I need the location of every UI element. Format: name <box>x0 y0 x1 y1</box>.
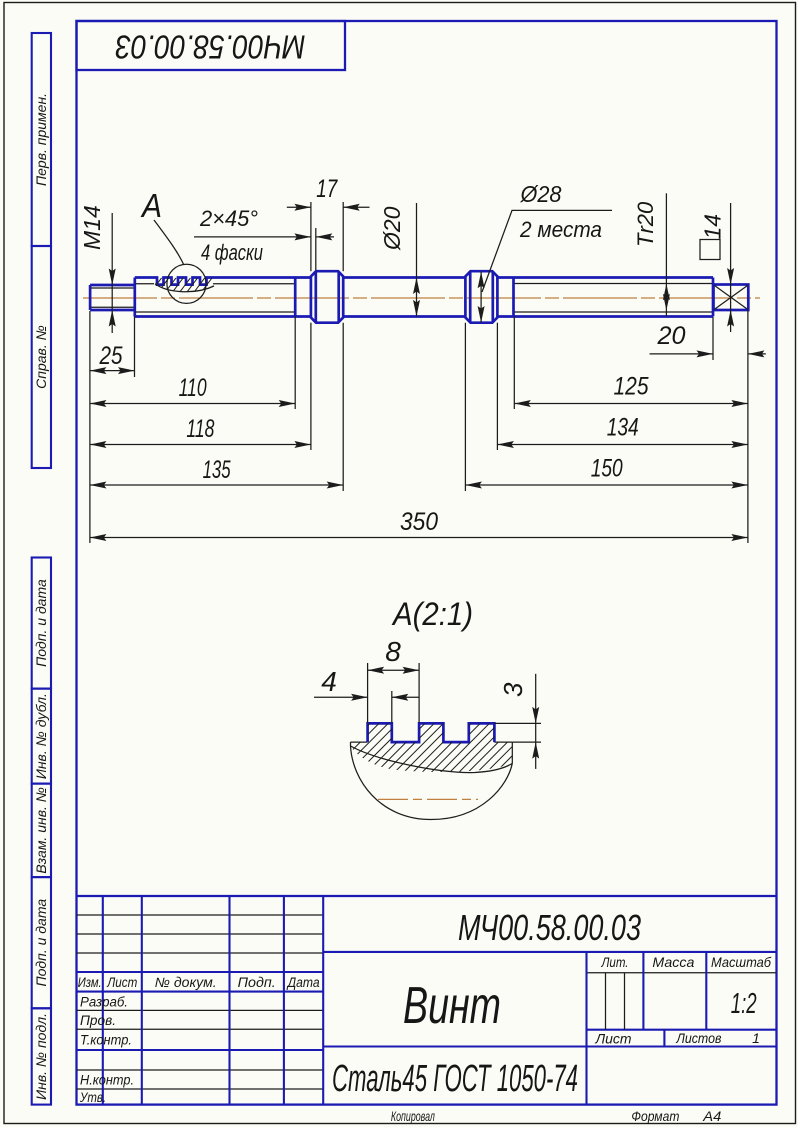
svg-text:2×45°: 2×45° <box>199 206 258 231</box>
title block thin lines <box>77 914 324 916</box>
svg-text:25: 25 <box>99 342 123 370</box>
detail: thread teeth profile <box>368 723 495 742</box>
svg-text:150: 150 <box>591 455 623 483</box>
svg-text:2 места: 2 места <box>519 217 602 242</box>
svg-text:Т.контр.: Т.контр. <box>80 1033 132 1048</box>
svg-text:1:2: 1:2 <box>731 988 757 1020</box>
dim M14 <box>111 213 113 333</box>
svg-text:Масштаб: Масштаб <box>711 954 772 970</box>
dim 17 (collar width) <box>310 202 312 271</box>
svg-text:А: А <box>140 187 162 224</box>
svg-text:17: 17 <box>316 175 338 203</box>
top stamp box <box>77 21 346 70</box>
thread end line <box>294 278 297 317</box>
leader to A label <box>154 220 184 264</box>
svg-text:Формат: Формат <box>631 1108 679 1124</box>
svg-text:14: 14 <box>700 214 726 240</box>
thread start line Tr20 <box>512 278 515 317</box>
svg-text:Справ. №: Справ. № <box>33 325 49 389</box>
title block blue lines <box>77 895 777 897</box>
svg-text:8: 8 <box>385 636 401 667</box>
detail: flange surface black segments <box>351 741 368 743</box>
dim 135 <box>342 323 344 491</box>
end face of Tr20 <box>712 278 715 317</box>
svg-text:Подп. и дата: Подп. и дата <box>33 899 49 987</box>
svg-text:Масса: Масса <box>652 954 694 970</box>
svg-text:134: 134 <box>607 414 639 442</box>
label box Инв. № дубл. <box>32 689 51 784</box>
svg-text:Подп. и дата: Подп. и дата <box>33 579 49 667</box>
svg-text:110: 110 <box>179 374 207 402</box>
svg-text:118: 118 <box>186 415 214 443</box>
svg-text:4 фаски: 4 фаски <box>201 240 263 265</box>
centerline main view <box>83 297 760 299</box>
svg-text:Копировал: Копировал <box>391 1108 435 1124</box>
svg-text:Взам. инв. №: Взам. инв. № <box>33 787 49 874</box>
svg-text:1: 1 <box>752 1030 760 1046</box>
svg-text:М14: М14 <box>79 205 105 250</box>
detail: centerline <box>378 798 478 800</box>
dim 125 <box>513 317 515 410</box>
thread root lines section 110 <box>136 283 155 285</box>
collar 1 (17 wide) <box>311 271 343 323</box>
M14 thread root lines <box>91 287 134 289</box>
svg-text:Ø28: Ø28 <box>520 181 562 207</box>
dim 110 <box>294 317 296 410</box>
detail circle A <box>167 264 206 303</box>
label box Перв. примен. <box>32 33 51 246</box>
shaft phi20 section <box>343 276 465 279</box>
svg-text:МЧ00.58.00.03: МЧ00.58.00.03 <box>458 907 641 948</box>
svg-text:А(2:1): А(2:1) <box>391 596 473 632</box>
svg-text:350: 350 <box>400 508 438 536</box>
M14 end cylinder outline <box>90 285 135 310</box>
label box Взам. инв. № <box>32 784 51 878</box>
shaft section 110 outline with thread teeth (detail A zone) <box>135 278 311 285</box>
square end 14x14 <box>714 285 749 311</box>
svg-text:№ докум.: № докум. <box>155 975 217 990</box>
svg-text:3: 3 <box>498 682 528 697</box>
collar 2 (phi28, 2 places) <box>465 271 497 323</box>
svg-text:А4: А4 <box>702 1108 721 1124</box>
svg-text:20: 20 <box>656 322 685 350</box>
svg-text:Утв.: Утв. <box>79 1090 106 1105</box>
dim 25 <box>89 311 91 543</box>
svg-text:4: 4 <box>321 666 337 697</box>
svg-text:Изм.: Изм. <box>78 975 102 990</box>
detail: semicircle arc <box>351 746 513 820</box>
chamfer note 2x45 / 4 faski <box>315 228 317 270</box>
step shoulder <box>133 278 136 317</box>
svg-text:МЧ00.58.00.03: МЧ00.58.00.03 <box>115 29 306 66</box>
dim 350 <box>747 310 749 543</box>
label box Подп. и дата <box>32 558 51 689</box>
svg-text:Инв. № подл.: Инв. № подл. <box>33 1013 49 1100</box>
dim Tr20 <box>665 193 667 316</box>
svg-text:135: 135 <box>203 456 231 484</box>
svg-text:Винт: Винт <box>403 977 501 1035</box>
dim 118 <box>310 323 312 450</box>
svg-text:Разраб.: Разраб. <box>80 995 128 1010</box>
dim 20 (square length) <box>712 317 714 360</box>
svg-text:Н.контр.: Н.контр. <box>80 1073 134 1088</box>
label box Справ. № <box>32 246 51 468</box>
svg-text:Лит.: Лит. <box>601 954 629 970</box>
detail dim 8 <box>367 663 369 723</box>
detail: section break curve <box>351 746 513 773</box>
svg-text:Дата: Дата <box>286 975 320 990</box>
detail dim 4 <box>391 691 393 723</box>
dim phi20 <box>416 203 418 316</box>
Tr20 root lines <box>515 283 714 285</box>
svg-text:Пров.: Пров. <box>80 1013 116 1028</box>
detail dim 3 <box>494 722 541 724</box>
shaft Tr20 section <box>497 276 713 279</box>
svg-text:Ø20: Ø20 <box>379 206 405 251</box>
dim 134 <box>496 323 498 450</box>
title block vertical lines <box>102 896 104 1105</box>
detail: side edges <box>350 742 352 746</box>
svg-text:Инв. № дубл.: Инв. № дубл. <box>33 693 49 779</box>
lens boundary curve <box>155 284 214 292</box>
svg-text:Сталь45 ГОСТ 1050-74: Сталь45 ГОСТ 1050-74 <box>332 1058 578 1100</box>
dim square 14 <box>730 203 732 332</box>
svg-text:Листов: Листов <box>676 1030 722 1046</box>
dim 150 <box>464 323 466 491</box>
svg-text:Перв. примен.: Перв. примен. <box>33 93 49 186</box>
svg-text:Лист: Лист <box>106 975 137 990</box>
svg-text:125: 125 <box>614 373 649 401</box>
svg-text:Подп.: Подп. <box>238 975 276 990</box>
label box Инв. № подл. <box>32 1008 51 1104</box>
label box Подп. и дата <box>32 877 51 1008</box>
svg-text:Тr20: Тr20 <box>633 201 658 247</box>
dim phi28 with leader <box>480 272 482 323</box>
svg-text:Лист: Лист <box>595 1031 632 1047</box>
square diagonals <box>715 286 748 310</box>
